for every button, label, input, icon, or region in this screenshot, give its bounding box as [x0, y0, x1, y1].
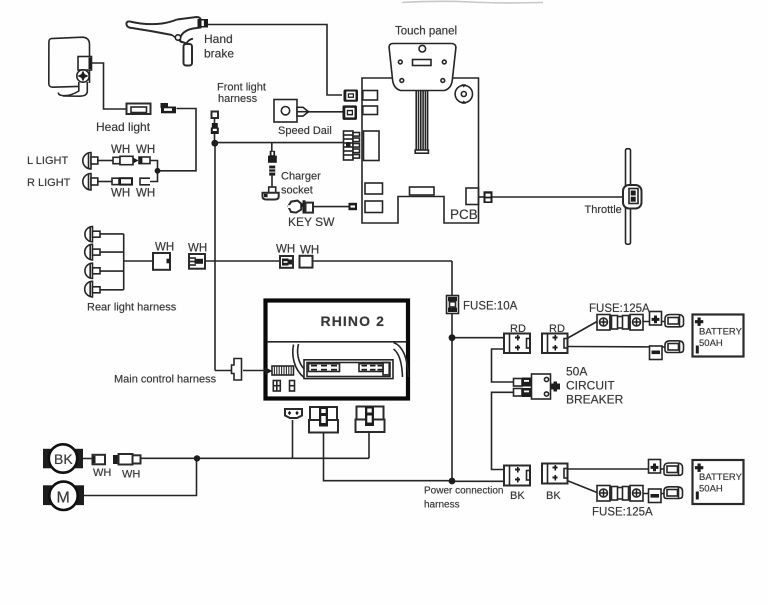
svg-text:Power connection: Power connection — [424, 486, 504, 497]
svg-text:FUSE:125A: FUSE:125A — [592, 507, 653, 519]
svg-text:50AH: 50AH — [699, 338, 723, 349]
svg-text:RD: RD — [510, 323, 526, 335]
svg-text:WH: WH — [122, 469, 140, 481]
svg-text:BATTERY: BATTERY — [699, 472, 743, 483]
svg-text:Head light: Head light — [96, 120, 151, 134]
svg-text:RHINO 2: RHINO 2 — [321, 313, 386, 329]
svg-text:WH: WH — [136, 188, 155, 200]
svg-text:KEY SW: KEY SW — [288, 215, 335, 229]
svg-text:Main control harness: Main control harness — [114, 374, 217, 386]
svg-text:M: M — [57, 490, 70, 507]
svg-text:Throttle: Throttle — [585, 204, 622, 216]
svg-text:BK: BK — [510, 490, 525, 502]
svg-text:BATTERY: BATTERY — [699, 327, 743, 338]
svg-text:socket: socket — [281, 185, 313, 197]
svg-text:WH: WH — [136, 144, 155, 156]
svg-text:Front light: Front light — [217, 82, 266, 94]
svg-text:50A: 50A — [566, 365, 587, 379]
svg-text:Touch panel: Touch panel — [395, 26, 457, 38]
svg-text:Charger: Charger — [281, 171, 321, 183]
svg-text:PCB: PCB — [450, 207, 478, 222]
svg-text:WH: WH — [188, 243, 207, 255]
svg-text:WH: WH — [276, 244, 295, 256]
svg-text:RD: RD — [549, 323, 565, 335]
svg-text:CIRCUIT: CIRCUIT — [566, 379, 615, 393]
svg-text:BK: BK — [54, 451, 73, 467]
svg-text:BREAKER: BREAKER — [566, 393, 624, 407]
svg-text:Speed Dail: Speed Dail — [278, 125, 332, 137]
svg-text:harness: harness — [218, 93, 258, 105]
svg-text:L LIGHT: L LIGHT — [27, 155, 68, 167]
svg-text:WH: WH — [300, 245, 319, 257]
svg-text:Hand: Hand — [204, 32, 233, 46]
svg-text:harness: harness — [424, 500, 460, 511]
svg-text:BK: BK — [546, 490, 561, 502]
svg-text:WH: WH — [155, 242, 174, 254]
svg-text:brake: brake — [204, 47, 234, 61]
svg-text:WH: WH — [111, 188, 130, 200]
svg-text:50AH: 50AH — [699, 484, 723, 495]
svg-text:FUSE:125A: FUSE:125A — [589, 303, 650, 315]
svg-text:Rear light harness: Rear light harness — [87, 302, 177, 314]
svg-text:FUSE:10A: FUSE:10A — [463, 301, 518, 313]
svg-text:WH: WH — [111, 144, 130, 156]
svg-text:WH: WH — [93, 467, 111, 479]
svg-text:R LIGHT: R LIGHT — [27, 177, 71, 189]
